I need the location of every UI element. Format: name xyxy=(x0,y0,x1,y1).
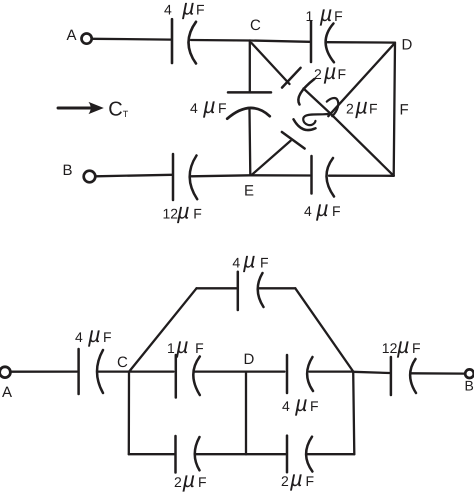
svg-text:E: E xyxy=(244,183,254,200)
capacitor C7 2uF flat plate xyxy=(282,132,305,149)
diagonal wire D toward E (upper segment) xyxy=(328,44,393,116)
capacitor C2 1uF curved plate xyxy=(326,23,334,62)
capacitor C13 2uF curved plate xyxy=(306,437,312,472)
svg-text:F: F xyxy=(400,102,409,119)
svg-text:12µF: 12µF xyxy=(382,333,421,358)
vertical wire up to right junction xyxy=(353,372,354,455)
terminal B xyxy=(84,171,96,183)
svg-text:D: D xyxy=(402,37,413,54)
capacitor C7 2uF curved plate xyxy=(294,119,316,130)
capacitor C1 4uF flat plate xyxy=(171,19,174,63)
wire C down to C5 xyxy=(249,41,251,93)
svg-text:1µF: 1µF xyxy=(306,1,343,26)
capacitor C6 2uF curved plate xyxy=(298,79,314,105)
svg-text:12µF: 12µF xyxy=(163,198,202,223)
wire B to C3 xyxy=(96,175,172,177)
svg-text:1µF: 1µF xyxy=(167,333,204,358)
wire A to C1 xyxy=(93,38,171,41)
middle wire C to C10 xyxy=(129,370,173,372)
svg-text:4µF: 4µF xyxy=(304,196,341,221)
wire C11 to junction xyxy=(310,370,354,372)
capacitor C1 4uF curved plate xyxy=(189,22,197,64)
diagonal wire C6 to bottom-right corner (lower segment) xyxy=(304,89,394,176)
capacitor C3 12uF flat plate xyxy=(172,154,175,200)
svg-text:C: C xyxy=(117,354,128,371)
diagonal wire C7 to E (lower segment) xyxy=(252,141,291,175)
capacitor C3 12uF curved plate xyxy=(190,156,198,200)
capacitor C9 4uF curved plate xyxy=(258,273,264,307)
capacitor C14 12uF flat plate xyxy=(390,357,393,395)
capacitor C12 2uF curved plate xyxy=(195,437,200,470)
capacitor C5 4uF flat plate xyxy=(228,91,271,94)
wire C5 to E xyxy=(248,110,251,176)
wire C3 to node E xyxy=(191,175,251,176)
capacitor C8 4uF curved plate xyxy=(97,350,103,393)
svg-text:A: A xyxy=(67,27,77,44)
diagonal wire down to right junction xyxy=(295,288,353,371)
svg-text:4µF: 4µF xyxy=(232,248,268,273)
diagonal wire C toward bottom-right corner (upper segment) xyxy=(252,43,290,84)
capacitor C11 4uF flat plate xyxy=(286,355,289,393)
wire A to C8 xyxy=(11,370,77,372)
terminal B (lower figure) xyxy=(465,369,474,378)
bottom branch wire 2 xyxy=(196,453,286,455)
svg-text:B: B xyxy=(465,378,474,394)
wire C to C2 xyxy=(250,41,310,42)
arrow for total capacitance xyxy=(58,107,90,110)
wire C8 to node C xyxy=(98,370,129,372)
capacitor C12 2uF flat plate xyxy=(174,436,177,473)
svg-text:D: D xyxy=(244,351,255,368)
wire D down right side (net F) xyxy=(394,43,395,176)
bottom branch wire 1 xyxy=(129,453,174,455)
diagonal wire C up to top branch xyxy=(129,288,196,371)
capacitor C2 1uF flat plate xyxy=(310,22,313,63)
wire C2 to D xyxy=(327,41,395,44)
svg-text:2µF: 2µF xyxy=(346,94,378,119)
svg-text:A: A xyxy=(2,384,12,401)
capacitor C4 4uF flat plate xyxy=(310,156,313,194)
top branch wire left xyxy=(197,287,237,289)
wire C10 to node D xyxy=(195,370,247,372)
terminal A (lower figure) xyxy=(0,367,10,378)
capacitor C11 4uF curved plate xyxy=(307,357,313,391)
wire E to C4 xyxy=(251,174,311,176)
capacitor C9 4uF flat plate xyxy=(237,272,240,310)
capacitor C6 2uF flat plate xyxy=(282,68,301,88)
wire C1 to node C xyxy=(191,39,250,42)
svg-text:CT: CT xyxy=(108,99,128,121)
svg-text:4µF: 4µF xyxy=(75,322,112,347)
svg-text:2µF: 2µF xyxy=(314,59,346,84)
svg-text:B: B xyxy=(63,162,73,179)
capacitor C4 4uF curved plate xyxy=(326,158,334,197)
curl leader stroke from 2uF label xyxy=(327,98,338,116)
capacitor C8 4uF flat plate xyxy=(77,349,80,394)
vertical wire D down xyxy=(245,372,247,455)
wire C14 to terminal B xyxy=(411,372,465,375)
svg-text:4µF: 4µF xyxy=(282,391,319,416)
svg-text:2µF: 2µF xyxy=(174,467,207,492)
capacitor C10 1uF curved plate xyxy=(193,357,200,396)
terminal A xyxy=(82,34,92,44)
capacitor C13 2uF flat plate xyxy=(286,436,289,473)
svg-text:C: C xyxy=(250,17,261,34)
top branch wire right xyxy=(259,287,296,289)
capacitor C10 1uF flat plate xyxy=(175,355,178,398)
curl leader hook xyxy=(303,113,331,125)
svg-text:4µF: 4µF xyxy=(190,93,227,118)
wire D to C11 xyxy=(246,370,285,372)
capacitor C5 4uF curved plate xyxy=(227,108,270,119)
svg-text:4µF: 4µF xyxy=(164,0,205,20)
bottom branch wire 3 xyxy=(307,453,355,455)
capacitor C14 12uF curved plate xyxy=(410,359,416,393)
wire C4 to bottom-right corner xyxy=(329,175,394,177)
vertical wire C down to bottom branch xyxy=(128,372,130,455)
wire junction to C14 xyxy=(353,372,389,373)
